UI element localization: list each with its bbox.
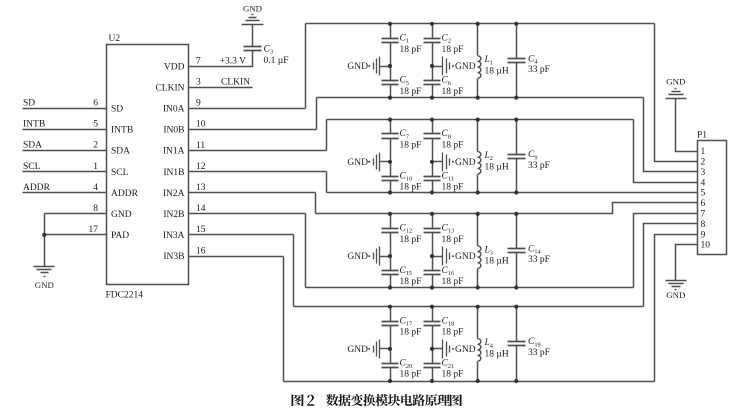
svg-text:VDD: VDD xyxy=(164,62,185,72)
svg-text:7: 7 xyxy=(196,56,201,66)
rail junction nodes block 1 xyxy=(388,22,519,100)
svg-text:GND: GND xyxy=(666,290,685,300)
svg-text:18 µH: 18 µH xyxy=(485,67,509,77)
capacitor C3 0.1uF decoupling xyxy=(244,47,262,51)
capacitor C1 branch upper xyxy=(382,24,399,43)
wire C18 to C21 xyxy=(432,326,434,364)
op-amp U2 FDC2214 IC body xyxy=(107,45,189,285)
ground symbol top-left (flipped) xyxy=(242,15,264,25)
svg-text:GND: GND xyxy=(455,252,476,262)
svg-text:C2: C2 xyxy=(442,33,452,44)
svg-text:+3.3 V: +3.3 V xyxy=(220,56,246,66)
svg-text:18 pF: 18 pF xyxy=(400,277,422,287)
wire pin12 drop to L-net2 bottom rail xyxy=(326,172,328,193)
svg-text:L3: L3 xyxy=(484,245,493,256)
svg-text:4: 4 xyxy=(93,183,98,193)
wire net SCL to U2 pin 1 xyxy=(23,171,107,173)
wire pin15 drop to L-net4 top rail xyxy=(293,235,295,307)
wire L-net2 top rail to P1 pin4 xyxy=(634,120,698,183)
svg-text:ADDR: ADDR xyxy=(111,189,139,199)
svg-text:18 pF: 18 pF xyxy=(400,328,422,338)
svg-text:33 pF: 33 pF xyxy=(528,161,550,171)
wire net INTB to U2 pin 5 xyxy=(23,129,107,131)
svg-text:SCL: SCL xyxy=(111,168,129,178)
svg-text:5: 5 xyxy=(93,120,98,130)
wire pin10 riser to L-net1 bottom rail xyxy=(316,98,318,130)
capacitor C18 branch upper xyxy=(424,307,441,326)
svg-text:IN0A: IN0A xyxy=(163,105,185,115)
svg-text:C13: C13 xyxy=(442,224,455,235)
svg-text:IN1B: IN1B xyxy=(163,168,184,178)
caption title 图2 数据变换模块电路原理图 xyxy=(292,394,463,406)
wire U2 pin 17 PAD to ground xyxy=(45,234,107,236)
wire U2 pin 16 horizontal xyxy=(189,256,284,258)
svg-text:C4: C4 xyxy=(528,54,538,65)
svg-text:CLKIN: CLKIN xyxy=(221,77,250,87)
wire C3 to ground top xyxy=(252,25,254,47)
svg-text:SD: SD xyxy=(111,105,123,115)
svg-text:SD: SD xyxy=(23,99,35,109)
svg-text:9: 9 xyxy=(701,230,706,240)
capacitor C5 branch lower xyxy=(382,81,399,98)
svg-text:18 pF: 18 pF xyxy=(442,328,464,338)
wire pin13 drop to L-net3 top rail xyxy=(315,193,317,214)
svg-text:18 pF: 18 pF xyxy=(400,370,422,380)
svg-text:33 pF: 33 pF xyxy=(528,348,550,358)
svg-text:3: 3 xyxy=(701,168,706,178)
svg-text:18 pF: 18 pF xyxy=(442,183,464,193)
inductor L4 18uH xyxy=(478,307,481,382)
svg-text:18 µH: 18 µH xyxy=(485,257,509,267)
svg-text:10: 10 xyxy=(196,120,206,130)
svg-text:7: 7 xyxy=(701,210,706,220)
wire P1 pin10 to ground xyxy=(676,245,698,281)
ground symbol right of C13 midpoint xyxy=(433,247,454,266)
svg-text:C19: C19 xyxy=(528,337,541,348)
wire L-net1 top rail IN0A xyxy=(306,23,655,25)
wire U2 pin 14 horizontal xyxy=(189,213,306,215)
svg-text:IN2A: IN2A xyxy=(163,189,185,199)
capacitor C7 branch upper xyxy=(382,120,399,139)
svg-text:18 pF: 18 pF xyxy=(442,235,464,245)
svg-text:C3: C3 xyxy=(264,45,274,56)
svg-text:5: 5 xyxy=(701,189,706,199)
wire C1 to C5 xyxy=(390,43,392,81)
svg-text:C11: C11 xyxy=(442,172,454,183)
svg-text:2: 2 xyxy=(701,158,706,168)
wire L-net4 top rail to P1 pin8 xyxy=(644,224,698,307)
svg-text:PAD: PAD xyxy=(111,231,129,241)
rail junction nodes block 4 xyxy=(388,305,519,384)
svg-text:18 pF: 18 pF xyxy=(442,87,464,97)
capacitor C16 branch lower xyxy=(424,271,441,288)
node junction C18/C21 midpoint xyxy=(430,347,434,351)
capacitor C10 branch lower xyxy=(382,177,399,193)
capacitor C11 branch lower xyxy=(424,177,441,193)
svg-text:C16: C16 xyxy=(442,266,455,277)
svg-text:GND: GND xyxy=(35,280,54,290)
wire L-net4 bottom rail to P1 pin9 xyxy=(655,235,698,382)
svg-text:GND: GND xyxy=(455,158,476,168)
node junction C2/C6 midpoint xyxy=(430,64,434,68)
svg-text:11: 11 xyxy=(196,141,205,151)
svg-text:ADDR: ADDR xyxy=(23,183,51,193)
wire L-net1 top rail to P1 pin2 xyxy=(655,24,698,162)
connector P1 body xyxy=(698,141,727,255)
svg-text:C14: C14 xyxy=(528,244,541,255)
capacitor C12 branch upper xyxy=(382,214,399,233)
svg-text:GND: GND xyxy=(347,252,368,262)
svg-text:1: 1 xyxy=(701,147,706,157)
svg-text:6: 6 xyxy=(93,99,98,109)
wire net SD to U2 pin 6 xyxy=(23,108,107,110)
capacitor C4 33pF xyxy=(508,24,526,98)
wire C2 to C6 xyxy=(432,43,434,81)
capacitor C19 33pF xyxy=(508,307,526,382)
wire C13 to C16 xyxy=(432,233,434,271)
svg-text:INTB: INTB xyxy=(111,126,133,136)
svg-text:GND: GND xyxy=(455,345,476,355)
svg-text:INTB: INTB xyxy=(23,120,45,130)
node junction C8/C11 midpoint xyxy=(430,160,434,164)
svg-text:SDA: SDA xyxy=(23,141,42,151)
svg-text:FDC2214: FDC2214 xyxy=(106,291,144,301)
svg-text:GND: GND xyxy=(347,62,368,72)
svg-text:18 µH: 18 µH xyxy=(485,162,509,172)
wire U2 pin 10 horizontal xyxy=(189,129,317,131)
ground symbol left of C17 midpoint xyxy=(368,340,390,359)
svg-text:18 pF: 18 pF xyxy=(400,87,422,97)
svg-text:GND: GND xyxy=(347,345,368,355)
wire C7 to C10 xyxy=(390,139,392,177)
svg-text:C10: C10 xyxy=(400,172,413,183)
node junction C12/C15 midpoint xyxy=(388,254,392,258)
ground symbol top-right (flipped) xyxy=(666,89,687,99)
svg-text:CLKIN: CLKIN xyxy=(155,83,184,93)
svg-text:18 pF: 18 pF xyxy=(442,141,464,151)
svg-text:GND: GND xyxy=(243,3,262,13)
svg-text:18 pF: 18 pF xyxy=(442,277,464,287)
wire L-net2 top rail IN1A xyxy=(327,119,634,121)
svg-text:IN3B: IN3B xyxy=(163,252,184,262)
wire pin9 riser to L-net1 top rail xyxy=(305,24,307,109)
svg-text:SDA: SDA xyxy=(111,147,130,157)
svg-text:18 µH: 18 µH xyxy=(485,350,509,360)
svg-text:33 pF: 33 pF xyxy=(528,65,550,75)
wire pin16 drop to L-net4 bottom rail xyxy=(283,257,285,382)
node junction GND/PAD xyxy=(42,233,46,237)
rail junction nodes block 2 xyxy=(388,118,519,195)
svg-text:C21: C21 xyxy=(442,359,455,370)
svg-text:C12: C12 xyxy=(400,224,413,235)
svg-text:GND: GND xyxy=(666,77,685,87)
capacitor C8 branch upper xyxy=(424,120,441,139)
svg-text:IN2B: IN2B xyxy=(163,210,184,220)
inductor L1 18uH xyxy=(477,24,480,98)
ground symbol left of C7 midpoint xyxy=(368,153,390,172)
svg-text:9: 9 xyxy=(196,99,201,109)
svg-text:8: 8 xyxy=(701,220,706,230)
svg-text:18 pF: 18 pF xyxy=(442,45,464,55)
wire U2 pin 15 horizontal xyxy=(189,234,294,236)
svg-text:8: 8 xyxy=(93,204,98,214)
svg-text:IN0B: IN0B xyxy=(163,126,184,136)
svg-text:4: 4 xyxy=(701,178,706,188)
U2 left pin labels xyxy=(111,105,139,242)
ground symbol left of C1 midpoint xyxy=(368,57,390,76)
wire U2 pin 8 GND to ground xyxy=(45,213,107,215)
svg-text:U2: U2 xyxy=(109,34,121,44)
wire L-net1 bottom rail to P1 pin3 xyxy=(644,98,698,172)
ground symbol right of C2 midpoint xyxy=(433,57,454,76)
svg-text:GND: GND xyxy=(455,62,476,72)
svg-text:L1: L1 xyxy=(484,55,493,66)
capacitor C17 branch upper xyxy=(382,307,399,326)
svg-text:16: 16 xyxy=(196,246,206,256)
wire L-net4 top rail IN3A xyxy=(294,306,644,308)
node junction C13/C16 midpoint xyxy=(430,254,434,258)
svg-text:6: 6 xyxy=(701,199,706,209)
wire pin11 riser to L-net2 top rail xyxy=(326,120,328,151)
svg-text:15: 15 xyxy=(196,225,206,235)
svg-text:C5: C5 xyxy=(400,76,410,87)
wire C8 to C11 xyxy=(432,139,434,177)
wire ground drop at x44 xyxy=(44,214,46,267)
node junction C17/C20 midpoint xyxy=(388,347,392,351)
wire U2 pin 12 horizontal xyxy=(189,171,327,173)
svg-text:C17: C17 xyxy=(400,316,413,327)
wire U2 pin 13 horizontal xyxy=(189,192,316,194)
wire U2 pin 11 horizontal xyxy=(189,150,327,152)
svg-text:L4: L4 xyxy=(484,338,494,349)
capacitor C2 branch upper xyxy=(424,24,441,43)
svg-text:IN3A: IN3A xyxy=(163,231,185,241)
capacitor C15 branch lower xyxy=(382,271,399,288)
capacitor C14 33pF xyxy=(508,214,526,288)
svg-text:C9: C9 xyxy=(528,150,538,161)
wire L-net3 bottom rail IN2B xyxy=(306,287,634,289)
svg-text:12: 12 xyxy=(196,162,206,172)
wire L-net4 bottom rail IN3B xyxy=(284,381,655,383)
ground symbol right of C18 midpoint xyxy=(433,340,454,359)
wire U2 pin 3 CLKIN stub xyxy=(189,87,253,89)
svg-text:C18: C18 xyxy=(442,316,455,327)
svg-text:0.1 µF: 0.1 µF xyxy=(264,56,289,66)
svg-text:C6: C6 xyxy=(442,76,452,87)
svg-text:L2: L2 xyxy=(484,151,493,162)
wire pin14 drop to L-net3 bottom rail xyxy=(305,214,307,288)
svg-text:C20: C20 xyxy=(400,359,413,370)
capacitor C20 branch lower xyxy=(382,364,399,382)
wire C17 to C20 xyxy=(390,326,392,364)
svg-text:10: 10 xyxy=(701,241,711,251)
svg-text:33 pF: 33 pF xyxy=(528,255,550,265)
wire L-net3 top rail IN2A to P1 pin6 xyxy=(316,203,698,214)
wire net ADDR to U2 pin 4 xyxy=(23,192,107,194)
svg-text:C1: C1 xyxy=(400,33,410,44)
svg-text:18 pF: 18 pF xyxy=(400,235,422,245)
wire L-net3 bottom rail to P1 pin7 xyxy=(634,214,698,288)
svg-text:18 pF: 18 pF xyxy=(400,45,422,55)
connector P1 pin numbers 1-10 xyxy=(701,147,711,251)
svg-text:18 pF: 18 pF xyxy=(442,370,464,380)
inductor L3 18uH xyxy=(478,214,481,288)
ground symbol bottom-right xyxy=(666,281,687,290)
svg-text:13: 13 xyxy=(196,183,206,193)
inductor L2 18uH xyxy=(478,120,481,193)
svg-text:C8: C8 xyxy=(442,129,452,140)
wire C12 to C15 xyxy=(390,233,392,271)
svg-text:14: 14 xyxy=(196,204,206,214)
ground symbol right of C8 midpoint xyxy=(433,153,454,172)
rail junction nodes block 3 xyxy=(388,212,519,290)
ground symbol lower-left xyxy=(34,267,55,277)
svg-text:C15: C15 xyxy=(400,266,413,277)
svg-text:18 pF: 18 pF xyxy=(400,141,422,151)
svg-text:3: 3 xyxy=(196,77,201,87)
wire L-net1 bottom rail IN0B xyxy=(317,97,644,99)
svg-text:P1: P1 xyxy=(697,131,707,141)
wire U2 pin 9 horizontal xyxy=(189,108,306,110)
wire net SDA to U2 pin 2 xyxy=(23,150,107,152)
svg-text:GND: GND xyxy=(347,158,368,168)
capacitor C21 branch lower xyxy=(424,364,441,382)
wire ground to P1 pin1 xyxy=(676,99,698,152)
node junction C1/C5 midpoint xyxy=(388,64,392,68)
svg-text:17: 17 xyxy=(89,225,99,235)
wire L-net2 bottom rail IN1B to P1 pin5 xyxy=(327,192,698,194)
capacitor C13 branch upper xyxy=(424,214,441,233)
U2 right pin labels xyxy=(155,62,184,262)
svg-text:C7: C7 xyxy=(400,129,410,140)
capacitor C6 branch lower xyxy=(424,81,441,98)
node junction C7/C10 midpoint xyxy=(388,160,392,164)
svg-text:1: 1 xyxy=(93,162,98,172)
ground symbol left of C12 midpoint xyxy=(368,247,390,266)
svg-text:GND: GND xyxy=(111,210,132,220)
capacitor C9 33pF xyxy=(508,120,526,193)
wire U2 pin 7 VDD to +3.3V xyxy=(189,51,253,67)
svg-text:2: 2 xyxy=(93,141,98,151)
svg-text:SCL: SCL xyxy=(23,162,41,172)
svg-text:18 pF: 18 pF xyxy=(400,183,422,193)
svg-text:IN1A: IN1A xyxy=(163,147,185,157)
